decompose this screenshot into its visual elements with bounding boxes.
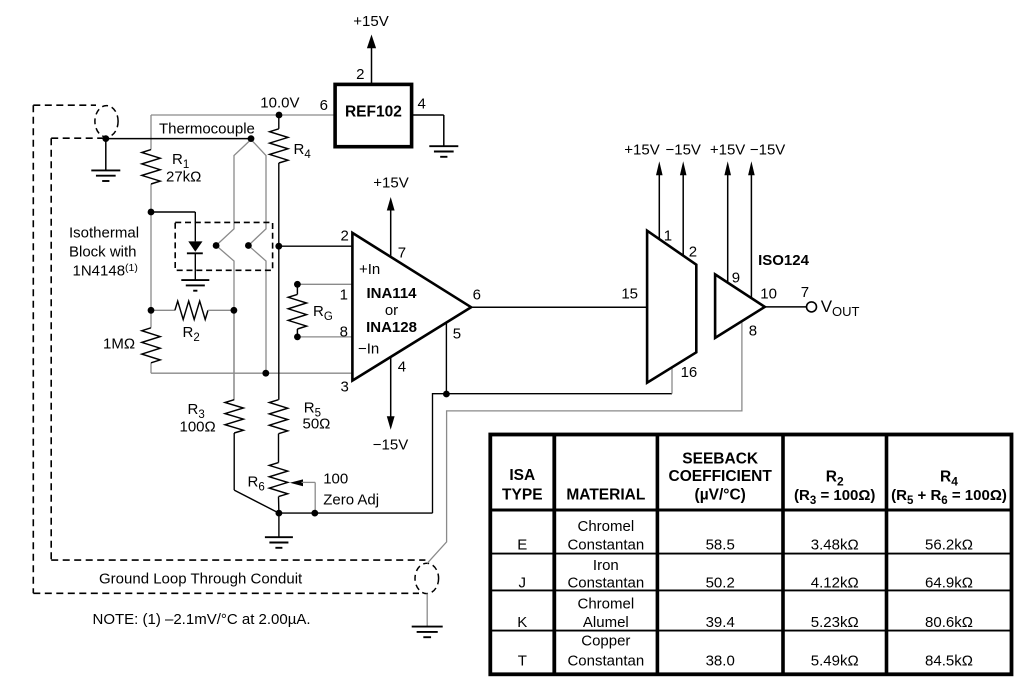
- svg-text:10: 10: [760, 285, 777, 302]
- svg-text:7: 7: [801, 284, 809, 301]
- svg-text:T: T: [518, 653, 527, 670]
- svg-text:16: 16: [681, 364, 698, 381]
- svg-text:Chromel: Chromel: [578, 596, 635, 613]
- svg-text:Constantan: Constantan: [567, 653, 644, 670]
- svg-text:SEEBACK: SEEBACK: [682, 450, 759, 467]
- svg-text:+15V: +15V: [373, 175, 408, 192]
- svg-text:−15V: −15V: [373, 437, 408, 454]
- svg-text:REF102: REF102: [345, 103, 402, 120]
- svg-text:Chromel: Chromel: [578, 518, 635, 535]
- svg-text:3: 3: [340, 379, 348, 396]
- svg-text:Isothermal: Isothermal: [69, 224, 139, 241]
- svg-text:5.23kΩ: 5.23kΩ: [811, 614, 859, 631]
- svg-text:INA128: INA128: [366, 319, 417, 336]
- svg-text:4: 4: [418, 96, 426, 113]
- svg-text:Constantan: Constantan: [567, 536, 644, 553]
- svg-text:5: 5: [453, 325, 461, 342]
- svg-text:38.0: 38.0: [706, 653, 735, 670]
- svg-text:3.48kΩ: 3.48kΩ: [811, 536, 859, 553]
- svg-text:100: 100: [323, 471, 348, 488]
- svg-text:8: 8: [340, 323, 348, 340]
- svg-text:15: 15: [621, 285, 638, 302]
- svg-text:COEFFICIENT: COEFFICIENT: [669, 468, 773, 485]
- svg-text:4.12kΩ: 4.12kΩ: [811, 575, 859, 592]
- svg-text:or: or: [385, 302, 398, 319]
- svg-text:Constantan: Constantan: [567, 575, 644, 592]
- svg-text:+15V: +15V: [624, 142, 659, 159]
- svg-text:2: 2: [689, 244, 697, 261]
- svg-text:9: 9: [732, 269, 740, 286]
- svg-text:−15V: −15V: [665, 142, 700, 159]
- svg-text:2: 2: [340, 228, 348, 245]
- svg-text:100Ω: 100Ω: [180, 419, 216, 436]
- svg-text:Alumel: Alumel: [583, 614, 629, 631]
- svg-text:84.5kΩ: 84.5kΩ: [925, 653, 973, 670]
- svg-text:2: 2: [356, 66, 364, 83]
- svg-text:58.5: 58.5: [706, 536, 735, 553]
- svg-text:1MΩ: 1MΩ: [103, 335, 135, 352]
- svg-text:ISA: ISA: [509, 467, 535, 484]
- svg-text:Thermocouple: Thermocouple: [159, 120, 255, 137]
- svg-text:NOTE: (1) –2.1mV/°C at 2.00µA.: NOTE: (1) –2.1mV/°C at 2.00µA.: [93, 611, 311, 628]
- svg-text:Ground Loop Through Conduit: Ground Loop Through Conduit: [99, 571, 303, 588]
- svg-text:J: J: [519, 575, 527, 592]
- svg-text:4: 4: [398, 358, 406, 375]
- svg-text:39.4: 39.4: [706, 614, 735, 631]
- svg-text:6: 6: [473, 286, 481, 303]
- svg-text:+15V: +15V: [710, 142, 745, 159]
- svg-text:50.2: 50.2: [706, 575, 735, 592]
- svg-text:5.49kΩ: 5.49kΩ: [811, 653, 859, 670]
- svg-text:Zero Adj: Zero Adj: [323, 491, 379, 508]
- svg-text:−15V: −15V: [750, 142, 785, 159]
- svg-text:(µV/°C): (µV/°C): [695, 486, 746, 503]
- svg-text:+15V: +15V: [353, 13, 388, 30]
- svg-text:1: 1: [664, 227, 672, 244]
- svg-text:6: 6: [320, 97, 328, 114]
- svg-text:INA114: INA114: [366, 285, 417, 302]
- svg-text:−In: −In: [358, 341, 379, 358]
- svg-text:+In: +In: [359, 261, 380, 278]
- svg-text:E: E: [517, 536, 527, 553]
- svg-text:27kΩ: 27kΩ: [166, 168, 201, 185]
- svg-text:7: 7: [398, 244, 406, 261]
- svg-text:10.0V: 10.0V: [260, 95, 299, 112]
- svg-text:Copper: Copper: [581, 633, 630, 650]
- svg-text:50Ω: 50Ω: [303, 416, 331, 433]
- svg-text:K: K: [517, 614, 527, 631]
- svg-text:64.9kΩ: 64.9kΩ: [925, 575, 973, 592]
- svg-text:ISO124: ISO124: [758, 252, 810, 269]
- svg-text:TYPE: TYPE: [502, 487, 542, 504]
- svg-text:80.6kΩ: 80.6kΩ: [925, 614, 973, 631]
- svg-text:56.2kΩ: 56.2kΩ: [925, 536, 973, 553]
- svg-text:MATERIAL: MATERIAL: [566, 487, 645, 504]
- svg-text:1: 1: [340, 286, 348, 303]
- svg-text:Iron: Iron: [593, 557, 619, 574]
- svg-text:8: 8: [749, 323, 757, 340]
- svg-text:Block with: Block with: [69, 243, 137, 260]
